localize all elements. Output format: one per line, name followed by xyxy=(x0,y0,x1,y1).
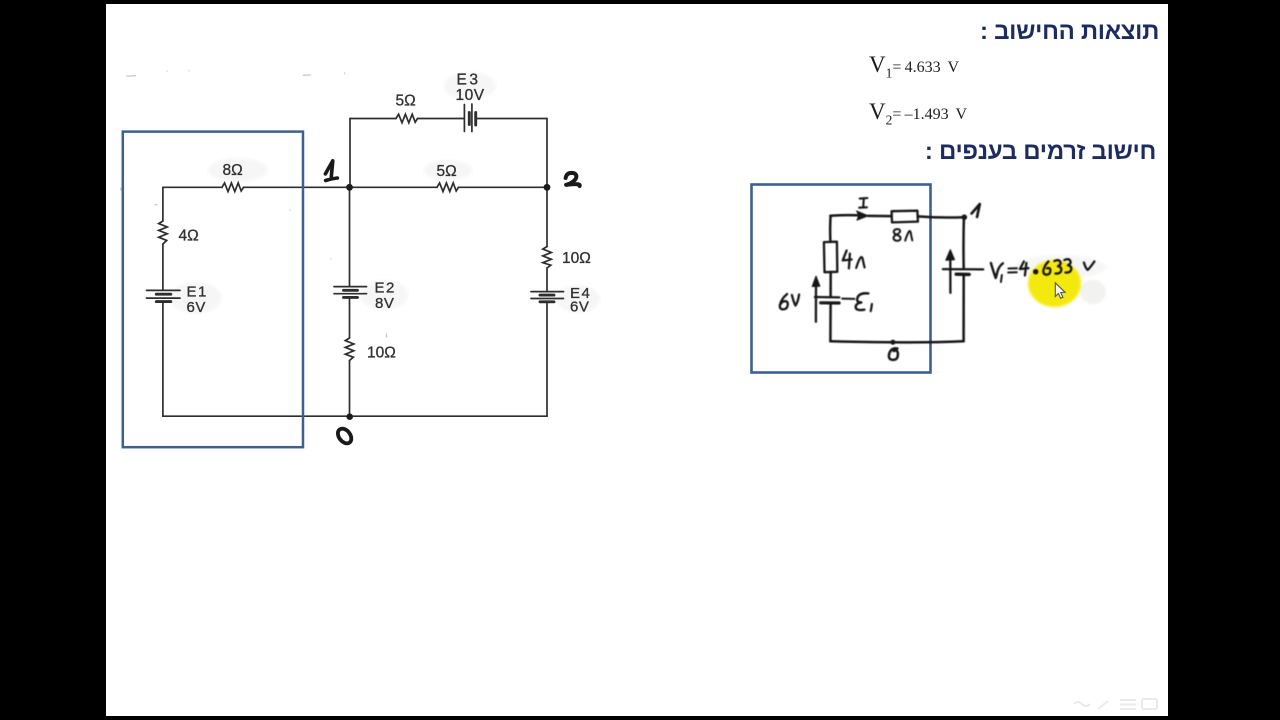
battery E1 plate long top xyxy=(147,289,181,291)
battery E4 plate short lower xyxy=(540,300,554,303)
heading: results of the calculation xyxy=(980,18,1159,46)
battery E1 plate short upper xyxy=(156,293,171,296)
wire: 10ohm middle to node 0 xyxy=(349,361,351,417)
battery E3 plate short left xyxy=(468,113,471,125)
handwritten node label 0 (printed schematic) xyxy=(335,426,354,446)
battery E2 plate long top xyxy=(334,286,367,288)
wire: 8ohm to node 1 xyxy=(244,186,350,188)
wire: 10ohm right to battery E4 xyxy=(546,268,548,292)
letterbox pillar left xyxy=(0,0,106,720)
svg-text:E2: E2 xyxy=(375,280,396,297)
battery E4 plate long bottom xyxy=(531,298,564,300)
resistor R1 8ohm zigzag xyxy=(222,183,244,192)
wire: battery E4 to bottom rail xyxy=(546,302,548,416)
faint player controls bottom right xyxy=(1074,699,1157,709)
handwritten node label 2 (printed schematic) xyxy=(566,173,580,186)
battery E3 plate long left xyxy=(463,105,465,132)
wire: battery E1 hand to bottom rail xyxy=(829,303,832,341)
resistor R6 10ohm right vertical zigzag xyxy=(543,247,552,269)
wire: 4ohm to battery E1 xyxy=(162,244,164,290)
label node 0 (hand) xyxy=(889,348,898,360)
wire: right branch node2 to 10ohm xyxy=(546,187,548,246)
wire: hand bottom rail xyxy=(830,341,963,342)
wire: main horizontal node1 left segment xyxy=(163,186,222,188)
svg-text:6V: 6V xyxy=(570,299,589,316)
battery E1 hand plate long xyxy=(815,296,839,299)
resistor R4 4ohm vertical zigzag xyxy=(159,221,168,244)
svg-text:10V: 10V xyxy=(456,87,485,104)
svg-text:8V: 8V xyxy=(375,295,394,312)
label node 1 (hand) xyxy=(972,204,980,217)
wire: middle branch node1 to E2 xyxy=(349,187,351,286)
resistor R2 5ohm top zigzag xyxy=(396,114,418,123)
letterbox pillar right xyxy=(1168,0,1280,720)
label E1 hand xyxy=(856,293,869,310)
resistor R5 10ohm middle vertical zigzag xyxy=(345,338,354,361)
battery E1 plate short lower xyxy=(156,300,171,303)
wire: 4ohm box to battery E1 hand xyxy=(829,272,832,297)
letterbox bar top xyxy=(0,0,1280,4)
highlight box around left branch (blue rectangle) xyxy=(123,132,303,448)
label I xyxy=(859,198,867,208)
faint scan specks xyxy=(120,71,386,338)
wire: top loop left horizontal xyxy=(350,118,396,120)
svg-text:4Ω: 4Ω xyxy=(179,228,199,245)
wire: top loop right vertical xyxy=(546,119,548,188)
formula V2 xyxy=(869,100,967,127)
battery E1 hand arrow head xyxy=(812,276,820,286)
current arrow I head xyxy=(857,211,869,220)
wire: source V1 to bottom rail xyxy=(962,275,965,342)
heading: branch currents calculation xyxy=(925,138,1156,166)
shadow blob near yellow highlight xyxy=(1080,280,1106,304)
wire: bottom rail xyxy=(163,415,547,417)
wire: battery E1 to bottom rail xyxy=(162,302,164,417)
label 4 ohm hand xyxy=(843,251,852,269)
svg-text:5Ω: 5Ω xyxy=(437,163,457,180)
battery E2 plate short lower xyxy=(344,296,358,299)
battery E3 plate long right xyxy=(471,104,473,132)
formula V1 xyxy=(869,53,959,80)
wire: hand left vertical top xyxy=(829,216,832,242)
wire: resistor box to node 1 xyxy=(918,216,964,217)
letterbox bar bottom xyxy=(0,716,1280,720)
wire: top loop left vertical xyxy=(349,119,351,188)
svg-text:10Ω: 10Ω xyxy=(562,250,591,267)
source V1 plate long xyxy=(943,268,983,271)
resistor 8 ohm hand box xyxy=(892,211,918,223)
handwritten node label 1 (printed schematic) xyxy=(325,161,337,181)
paper scan smudges (decorative) xyxy=(170,72,1106,314)
battery E4 plate long top xyxy=(531,291,564,293)
svg-text:10Ω: 10Ω xyxy=(367,345,396,362)
svg-text:E1: E1 xyxy=(187,284,208,301)
battery E1 hand dash to label xyxy=(842,298,854,300)
battery E4 plate short upper xyxy=(540,294,554,297)
svg-text:E3: E3 xyxy=(457,72,481,89)
source V1 arrow stem xyxy=(949,255,951,293)
battery E1 plate long bottom xyxy=(147,297,181,299)
wire: hand top left segment xyxy=(830,214,856,217)
battery E3 plate short right xyxy=(474,113,477,126)
battery E2 plate long bottom xyxy=(334,293,367,295)
wire: arrow to resistor 8ohm box xyxy=(868,215,891,218)
wire: E2 to 10ohm middle xyxy=(349,297,351,338)
handwritten V1 = 4.633 V xyxy=(991,263,1003,278)
resistor 4 ohm hand box xyxy=(824,242,837,273)
wire: battery E3 to top right corner xyxy=(477,118,547,120)
source V1 arrow head xyxy=(946,250,955,260)
node 1 dot (hand) xyxy=(962,214,968,220)
wire: node 1 down to source plate xyxy=(962,217,965,268)
wire: left branch vertical upper xyxy=(162,187,164,221)
svg-text:8Ω: 8Ω xyxy=(223,162,243,179)
node 2 junction dot xyxy=(544,184,551,191)
source V1 plate short xyxy=(956,273,969,277)
printed labels xyxy=(179,72,592,362)
battery E1 hand arrow stem xyxy=(815,281,817,321)
mouse cursor xyxy=(1055,283,1065,299)
svg-text:6V: 6V xyxy=(187,299,206,316)
battery E2 plate short upper xyxy=(344,289,358,292)
resistor R3 5ohm middle zigzag xyxy=(437,183,459,192)
highlight box around handwritten circuit (blue rectangle) xyxy=(752,185,931,373)
svg-text:5Ω: 5Ω xyxy=(396,93,416,110)
wire: mid 5ohm to node 2 xyxy=(459,186,548,188)
label 8 ohm hand xyxy=(894,229,901,241)
node 0 junction dot xyxy=(346,413,353,420)
label 6V hand xyxy=(780,294,788,309)
node 0 dot (hand) xyxy=(890,340,895,345)
wire: node1 to mid 5ohm xyxy=(350,186,438,188)
wire: top 5ohm to battery E3 xyxy=(418,118,465,120)
battery E1 hand plate short xyxy=(821,301,839,304)
yellow highlight spot xyxy=(1028,260,1081,307)
node 1 junction dot xyxy=(346,184,353,191)
